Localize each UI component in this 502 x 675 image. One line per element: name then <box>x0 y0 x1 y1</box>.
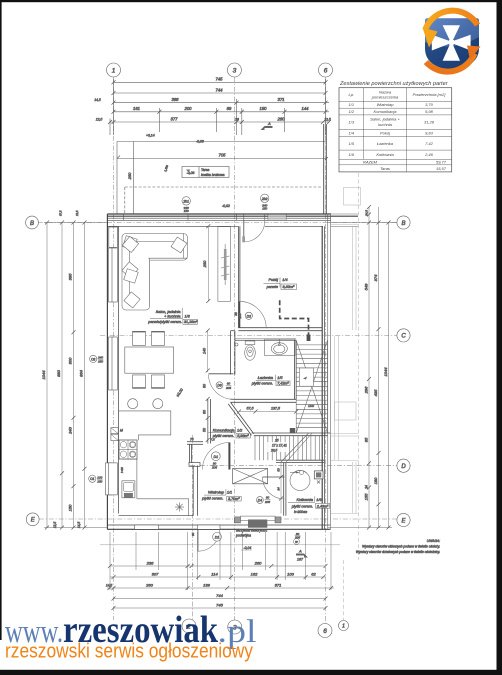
svg-text:Wiatrołap: Wiatrołap <box>208 490 224 494</box>
svg-text:2,46m²: 2,46m² <box>316 504 329 508</box>
svg-text:31,28m²: 31,28m² <box>184 320 198 324</box>
svg-text:płytki ceram.: płytki ceram. <box>212 434 234 438</box>
svg-text:3,70m²: 3,70m² <box>228 497 240 501</box>
svg-text:B: B <box>30 221 34 227</box>
svg-text:250: 250 <box>127 172 132 180</box>
svg-text:205: 205 <box>211 466 217 470</box>
svg-text:34: 34 <box>277 487 281 491</box>
svg-text:6: 6 <box>323 628 327 635</box>
svg-text:180: 180 <box>373 477 378 484</box>
svg-text:M: M <box>120 429 123 433</box>
svg-text:skrzynka elektryczn.: skrzynka elektryczn. <box>236 529 268 533</box>
svg-text:139: 139 <box>203 582 210 587</box>
svg-text:1044: 1044 <box>41 370 46 380</box>
svg-text:28: 28 <box>234 117 239 121</box>
svg-text:płytki ceram.: płytki ceram. <box>291 504 313 508</box>
svg-text:Taras: Taras <box>201 168 210 172</box>
svg-text:panele: panele <box>266 285 278 289</box>
svg-text:150: 150 <box>98 360 103 364</box>
svg-text:Powierzchnia [m2]: Powierzchnia [m2] <box>413 92 447 97</box>
svg-text:34,5: 34,5 <box>365 210 369 216</box>
svg-text:O1: O1 <box>90 477 94 481</box>
svg-text:kostka brukowa: kostka brukowa <box>201 173 225 177</box>
svg-text:1/4: 1/4 <box>282 278 287 282</box>
svg-text:C: C <box>401 334 406 340</box>
svg-text:RAZEM: RAZEM <box>363 160 378 165</box>
svg-text:89: 89 <box>227 106 232 111</box>
svg-text:-0,02: -0,02 <box>222 204 230 208</box>
svg-text:60: 60 <box>203 410 207 414</box>
svg-text:2,46: 2,46 <box>424 152 434 157</box>
svg-text:17 x 17,41: 17 x 17,41 <box>272 444 287 448</box>
svg-text:D3: D3 <box>217 384 221 388</box>
svg-text:W: W <box>295 540 298 544</box>
svg-text:28,5: 28,5 <box>270 449 277 453</box>
svg-text:1/4: 1/4 <box>349 130 355 135</box>
svg-text:7,5: 7,5 <box>211 438 216 442</box>
svg-text:1/6: 1/6 <box>349 152 355 157</box>
svg-text:205: 205 <box>225 386 231 390</box>
svg-text:75: 75 <box>190 438 194 442</box>
svg-text:7,42: 7,42 <box>425 141 434 146</box>
svg-text:Łazienka: Łazienka <box>258 376 273 380</box>
svg-text:12,5: 12,5 <box>53 522 57 528</box>
svg-text:UWAGA:: UWAGA: <box>427 539 440 543</box>
svg-text:371: 371 <box>275 582 282 587</box>
svg-text:podwójna: podwójna <box>235 534 251 538</box>
svg-text:864: 864 <box>79 369 84 376</box>
svg-text:705: 705 <box>219 153 227 158</box>
svg-text:Komunikacja: Komunikacja <box>213 428 235 432</box>
svg-text:144: 144 <box>302 106 310 111</box>
svg-text:Wymiary otworów okiennych poda: Wymiary otworów okiennych podane w świet… <box>362 545 440 549</box>
svg-text:A: A <box>267 121 271 126</box>
svg-text:Łazienka: Łazienka <box>377 141 394 146</box>
svg-text:114: 114 <box>211 571 218 576</box>
svg-text:D: D <box>401 464 406 470</box>
svg-text:260: 260 <box>254 560 262 565</box>
svg-text:Wymiary otworów drzwiowych pod: Wymiary otworów drzwiowych podane w świe… <box>356 550 440 554</box>
svg-text:5,98: 5,98 <box>425 109 434 114</box>
svg-text:B: B <box>401 221 405 227</box>
svg-text:A: A <box>298 549 302 554</box>
svg-text:15,57: 15,57 <box>436 166 447 171</box>
svg-text:Kotłownia: Kotłownia <box>297 498 313 502</box>
svg-text:h=200cm: h=200cm <box>294 510 308 514</box>
svg-text:7,42m²: 7,42m² <box>277 382 289 386</box>
svg-text:260: 260 <box>145 582 153 587</box>
svg-text:Pokój: Pokój <box>269 278 279 282</box>
svg-text:150: 150 <box>262 207 267 211</box>
svg-text:24: 24 <box>365 485 369 490</box>
svg-text:9,83m²: 9,83m² <box>283 285 296 289</box>
svg-text:744: 744 <box>216 593 223 598</box>
svg-text:1: 1 <box>342 624 345 630</box>
svg-text:3: 3 <box>233 67 237 74</box>
svg-text:140: 140 <box>203 348 207 354</box>
svg-text:Wiatrołap: Wiatrołap <box>377 102 395 107</box>
svg-text:307: 307 <box>152 571 159 576</box>
svg-text:D1: D1 <box>215 536 220 540</box>
svg-text:250: 250 <box>202 260 207 268</box>
svg-text:Salon, jadalnia +: Salon, jadalnia + <box>370 117 400 122</box>
svg-text:-0,04: -0,04 <box>244 546 252 550</box>
svg-text:745: 745 <box>216 602 223 607</box>
svg-text:D2: D2 <box>247 314 251 318</box>
svg-text:D1: D1 <box>213 455 218 459</box>
svg-text:+ kuchnia: + kuchnia <box>164 314 180 318</box>
svg-text:150: 150 <box>97 479 102 483</box>
svg-text:12,5: 12,5 <box>75 210 79 216</box>
svg-text:62: 62 <box>311 571 316 576</box>
svg-text:880: 880 <box>56 369 61 376</box>
svg-text:14,5: 14,5 <box>77 522 81 528</box>
svg-text:Lp.: Lp. <box>349 92 355 97</box>
svg-text:167: 167 <box>297 558 304 562</box>
svg-text:371: 371 <box>278 97 285 102</box>
svg-text:374: 374 <box>373 274 378 281</box>
svg-text:161: 161 <box>133 106 140 111</box>
svg-text:435: 435 <box>373 389 378 396</box>
svg-text:Taras: Taras <box>380 166 390 171</box>
svg-text:31,28: 31,28 <box>424 120 435 125</box>
svg-text:1/5: 1/5 <box>349 141 355 146</box>
svg-text:Salon, jadalnia: Salon, jadalnia <box>156 310 181 314</box>
svg-text:9,83: 9,83 <box>425 130 434 135</box>
svg-text:2b2: 2b2 <box>261 197 268 201</box>
svg-text:300: 300 <box>68 357 73 364</box>
svg-text:1/6: 1/6 <box>316 498 322 502</box>
svg-text:1/2: 1/2 <box>349 109 355 114</box>
svg-text:549: 549 <box>364 283 369 290</box>
svg-text:50: 50 <box>277 468 281 472</box>
svg-text:12,5: 12,5 <box>324 117 330 121</box>
svg-text:385: 385 <box>68 273 73 280</box>
svg-text:O2: O2 <box>91 357 95 361</box>
svg-text:panele/płytki ceram.: panele/płytki ceram. <box>147 320 182 324</box>
svg-text:płytki ceram.: płytki ceram. <box>201 497 223 501</box>
svg-text:162: 162 <box>251 571 258 576</box>
svg-text:1: 1 <box>112 67 116 74</box>
svg-text:14,5: 14,5 <box>94 98 100 102</box>
svg-text:rzeszowski serwis ogłoszeniowy: rzeszowski serwis ogłoszeniowy <box>5 641 253 663</box>
svg-text:80: 80 <box>266 496 270 500</box>
svg-text:5,98m²: 5,98m² <box>237 434 249 438</box>
svg-text:205: 205 <box>264 500 270 504</box>
svg-text:80: 80 <box>227 382 231 386</box>
svg-text:-0,08: -0,08 <box>196 140 204 144</box>
svg-text:3,70: 3,70 <box>425 102 434 107</box>
svg-text:Pokój: Pokój <box>380 130 390 135</box>
svg-text:296: 296 <box>364 386 369 394</box>
svg-text:+0,14: +0,14 <box>146 134 155 138</box>
svg-text:1/1: 1/1 <box>349 102 355 107</box>
svg-text:57,5: 57,5 <box>247 407 254 411</box>
svg-text:6: 6 <box>324 67 328 74</box>
svg-text:150: 150 <box>260 106 268 111</box>
svg-text:pomieszczenia: pomieszczenia <box>371 95 399 100</box>
svg-text:388: 388 <box>172 97 180 102</box>
svg-text:1/3: 1/3 <box>185 314 191 318</box>
svg-text:200: 200 <box>184 106 193 111</box>
svg-text:14,5: 14,5 <box>106 583 112 587</box>
svg-text:płytki ceram.: płytki ceram. <box>251 382 273 386</box>
svg-text:Zestawienie powierzchni użytko: Zestawienie powierzchni użytkowych parte… <box>339 81 449 87</box>
svg-text:kuchnia: kuchnia <box>378 122 393 127</box>
svg-text:100: 100 <box>287 571 294 576</box>
svg-text:l=60: l=60 <box>120 467 124 473</box>
svg-text:90: 90 <box>191 532 195 536</box>
svg-text:1044: 1044 <box>383 367 388 377</box>
svg-text:150: 150 <box>68 504 73 511</box>
svg-text:377: 377 <box>171 116 179 121</box>
svg-text:D4: D4 <box>258 499 262 503</box>
svg-text:238: 238 <box>146 560 154 565</box>
svg-text:137,5: 137,5 <box>271 407 280 411</box>
svg-text:1/5: 1/5 <box>277 376 283 380</box>
svg-text:15: 15 <box>275 439 279 443</box>
svg-text:205: 205 <box>238 313 242 319</box>
svg-text:59,77: 59,77 <box>436 160 447 165</box>
svg-text:Komunikacja: Komunikacja <box>374 109 398 114</box>
svg-text:745: 745 <box>216 77 224 82</box>
svg-text:Kotłownia: Kotłownia <box>376 152 394 157</box>
svg-text:37,5: 37,5 <box>59 210 63 216</box>
svg-text:1/2: 1/2 <box>237 428 243 432</box>
svg-text:12,5: 12,5 <box>96 117 103 121</box>
svg-text:744: 744 <box>216 87 224 92</box>
svg-text:85: 85 <box>364 437 369 442</box>
svg-text:50: 50 <box>203 428 207 432</box>
svg-text:240: 240 <box>68 426 73 434</box>
svg-text:90: 90 <box>203 384 207 388</box>
svg-text:1/3: 1/3 <box>349 120 355 125</box>
svg-text:155: 155 <box>364 493 369 500</box>
svg-text:2b1: 2b1 <box>182 200 189 204</box>
svg-text:150: 150 <box>184 209 189 213</box>
svg-text:280: 280 <box>277 116 286 121</box>
svg-text:1/1: 1/1 <box>227 490 232 494</box>
